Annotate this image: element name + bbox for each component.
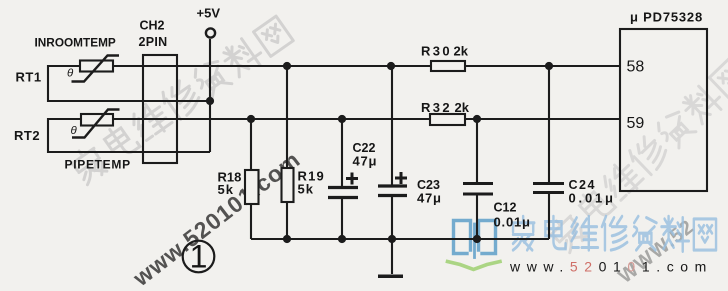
junction dot (287,239) [283,235,291,243]
+5V terminal circle [206,28,215,37]
wire C22 branch [341,119,343,239]
svg-text:2k: 2k [454,44,469,59]
svg-text:R32: R32 [421,100,452,115]
svg-text:RT1: RT1 [16,70,42,85]
junction dot (391,66) [387,62,395,70]
svg-text:θ: θ [67,68,74,80]
C22 plus sign [346,173,358,185]
capacitor C12 plates [463,184,493,195]
connector CH2 body [143,55,177,163]
resistor R18 body [245,170,259,204]
wire C24 branch [548,66,550,239]
svg-text:www.520101.com: www.520101.com [509,259,713,275]
thermistor RT2 body [81,114,113,126]
svg-text:47μ: 47μ [417,191,442,206]
watermark blue hanzi row bottom-right [512,216,716,251]
svg-text:5k: 5k [298,182,314,197]
svg-text:5k: 5k [218,182,234,197]
wire R18 branch [250,119,252,239]
ground [391,239,393,274]
wire RT2 left loop to +5V [48,119,210,152]
resistor R19 body [282,168,294,202]
svg-text:RT2: RT2 [14,128,40,143]
wire ground rail [251,238,549,240]
capacitor C24 plates [533,184,564,193]
junction dot (342,119) [338,115,346,123]
resistor R32 body [430,114,465,125]
svg-text:+5V: +5V [197,6,221,21]
watermark book icon [448,221,501,270]
thermistor RT2 diagonal [72,110,120,138]
watermark gray hanzi diagonal top-left [68,14,294,186]
svg-text:0.01μ: 0.01μ [569,191,616,206]
junction dot (342,239) [338,235,346,243]
junction dot (210,101) [206,97,214,105]
junction dot (477,239) [473,235,481,243]
svg-text:2k: 2k [455,100,470,115]
C23 plus sign [395,172,407,184]
svg-text:CH2: CH2 [140,19,165,33]
junction dot (287,66) [283,62,291,70]
thermistor RT1 diagonal [72,56,120,82]
svg-text:59: 59 [627,115,645,132]
wire RT1 left loop to +5V [48,66,210,101]
wire R19 branch [286,66,288,239]
capacitor C23 plates [378,186,407,196]
junction dot (392,239) [388,235,396,243]
resistor R30 body [431,61,465,71]
thermistor RT1 body [80,61,113,72]
IC U1 uPD75328 box [620,29,707,191]
svg-text:1: 1 [190,239,208,275]
capacitor C22 plates [328,188,358,198]
svg-text:PIPETEMP: PIPETEMP [65,158,131,172]
svg-text:R30: R30 [421,44,452,59]
svg-text:0.01μ: 0.01μ [494,215,531,230]
svg-text:INROOMTEMP: INROOMTEMP [35,36,116,50]
wire net 58 horizontal [114,65,620,67]
wire +5V drop [209,39,211,152]
wire net 59 horizontal [113,118,620,120]
wire C12 branch [476,119,478,239]
svg-text:C12: C12 [494,201,517,215]
junction dot (477,119) [473,115,481,123]
svg-text:58: 58 [627,59,645,76]
junction dot (549,66) [545,62,553,70]
junction dot (251,119) [247,115,255,123]
svg-text:47μ: 47μ [353,154,378,169]
circled 1 figure number [183,241,215,273]
svg-text:2PIN: 2PIN [139,35,168,49]
wire C23 branch [391,66,393,239]
svg-text:μ PD75328: μ PD75328 [630,10,703,25]
watermark gray hanzi diagonal right [547,57,728,255]
svg-text:θ: θ [71,125,78,137]
